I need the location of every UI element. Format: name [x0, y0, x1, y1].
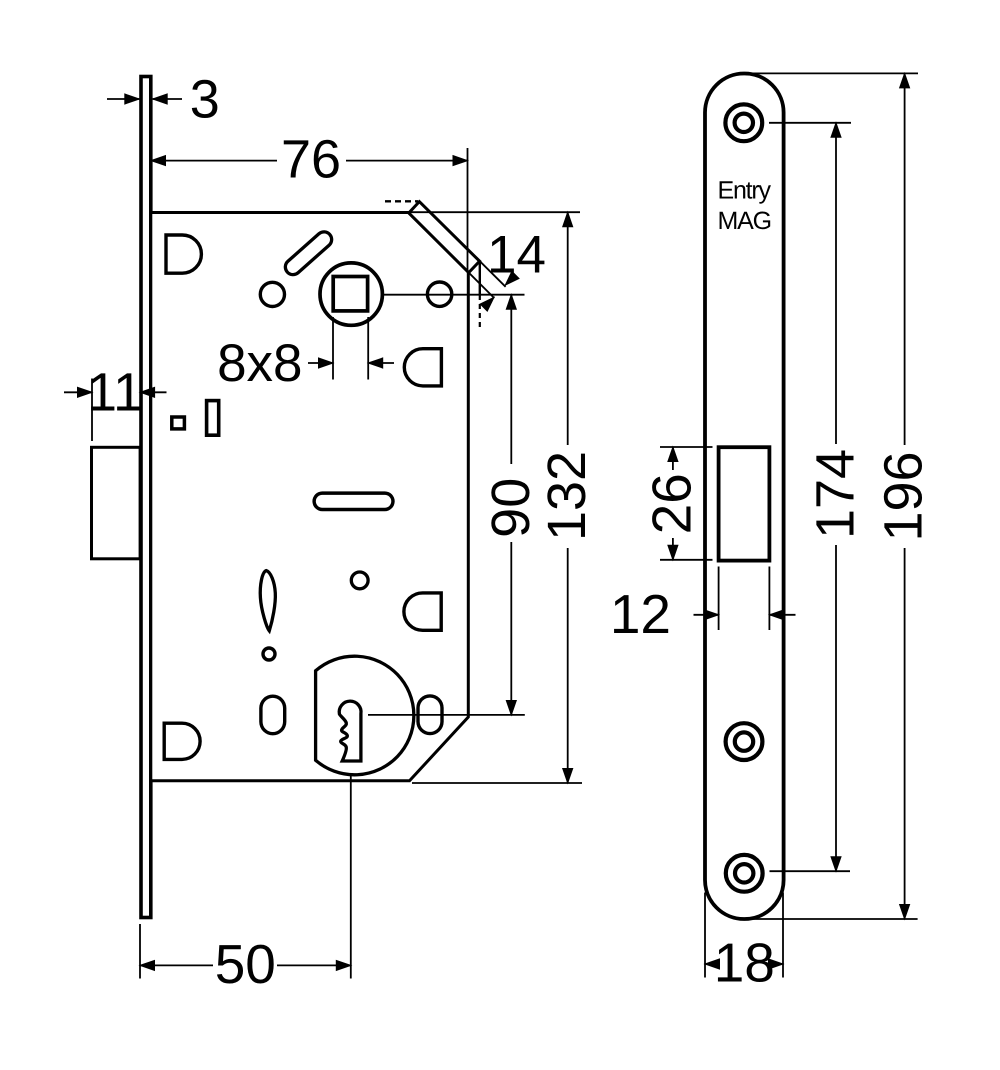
arrowheads dim 76: [151, 156, 166, 166]
svg-text:11: 11: [87, 363, 143, 423]
D cutout top-left: [166, 235, 201, 273]
faceplate front: [705, 74, 784, 920]
keyhole escutcheon circle with flat left: [316, 656, 414, 775]
latch trigger flap (diagonal band): [409, 202, 480, 273]
svg-text:18: 18: [714, 932, 775, 994]
bean slot (angled capsule): [293, 240, 324, 268]
vertical capsule slot right of keyhole: [416, 708, 443, 722]
arrowheads dim 26: [668, 447, 678, 462]
arrowheads dim 8x8: [319, 358, 334, 368]
svg-text:14: 14: [487, 226, 546, 285]
spindle square 8x8: [333, 277, 367, 311]
arrowheads dim 14: [502, 271, 519, 288]
lock body outline: [151, 213, 469, 781]
arrowheads dim 50: [140, 960, 155, 970]
svg-text:MAG: MAG: [718, 207, 771, 235]
dim 196: [747, 72, 918, 74]
keyhole cutout: [339, 701, 361, 761]
arrowheads dim 11: [78, 387, 93, 397]
svg-text:132: 132: [537, 451, 597, 541]
arrowheads dim 174: [831, 123, 841, 138]
arrowheads dim 196: [900, 73, 910, 88]
teardrop slot: [260, 571, 275, 631]
small vertical slot: [207, 401, 219, 436]
flap tip edge: solid then dashed: [479, 262, 481, 296]
small circle above keyhole: [351, 572, 368, 589]
dim 132: [409, 211, 581, 213]
svg-text:196: 196: [874, 451, 934, 541]
faceplate side view: [141, 77, 151, 918]
spindle circle: [320, 263, 382, 325]
svg-text:174: 174: [805, 449, 865, 539]
svg-text:90: 90: [481, 478, 541, 538]
dim 50: [139, 924, 141, 979]
arrowheads dim 132: [563, 212, 573, 227]
svg-text:Entry: Entry: [718, 176, 772, 204]
dim 12: [718, 567, 720, 631]
svg-text:50: 50: [215, 933, 276, 995]
dim 11: [91, 379, 93, 442]
latch bolt: [92, 447, 141, 559]
dim 3: [107, 98, 139, 100]
arrowheads dim 12: [704, 610, 719, 620]
svg-text:26: 26: [641, 473, 703, 534]
arrowheads dim 18: [705, 959, 720, 969]
screw hole top: [725, 104, 762, 141]
svg-text:3: 3: [190, 70, 220, 130]
dim 76: [152, 160, 277, 162]
D cutout mid-right (flat right): [404, 349, 441, 386]
vertical capsule slot: [259, 708, 286, 722]
hidden edge dashed (flap top): [385, 200, 418, 202]
dim 26: [660, 446, 713, 448]
small circle below teardrop: [263, 648, 275, 660]
svg-text:12: 12: [610, 583, 671, 645]
arrowheads dim 90: [506, 295, 516, 310]
dim 14 ext diagonals: [480, 261, 506, 287]
svg-text:8x8: 8x8: [217, 334, 302, 393]
small circle right of spindle: [427, 282, 451, 306]
latch cutout: [719, 447, 770, 560]
D cutout lower-right (flat right): [404, 593, 441, 630]
dim 8x8: [332, 317, 334, 380]
dim 18: [704, 893, 706, 978]
dim 174: [769, 122, 851, 124]
D cutout bottom-left (flat left): [164, 723, 200, 759]
dim 90: [383, 294, 525, 296]
screw hole middle: [726, 723, 763, 760]
arrowheads dim 3: [125, 94, 140, 104]
screw hole bottom: [726, 855, 763, 892]
small square cutout: [172, 417, 185, 429]
svg-text:76: 76: [281, 130, 341, 190]
small circle left of spindle: [260, 282, 284, 306]
horizontal capsule slot: [322, 491, 385, 511]
